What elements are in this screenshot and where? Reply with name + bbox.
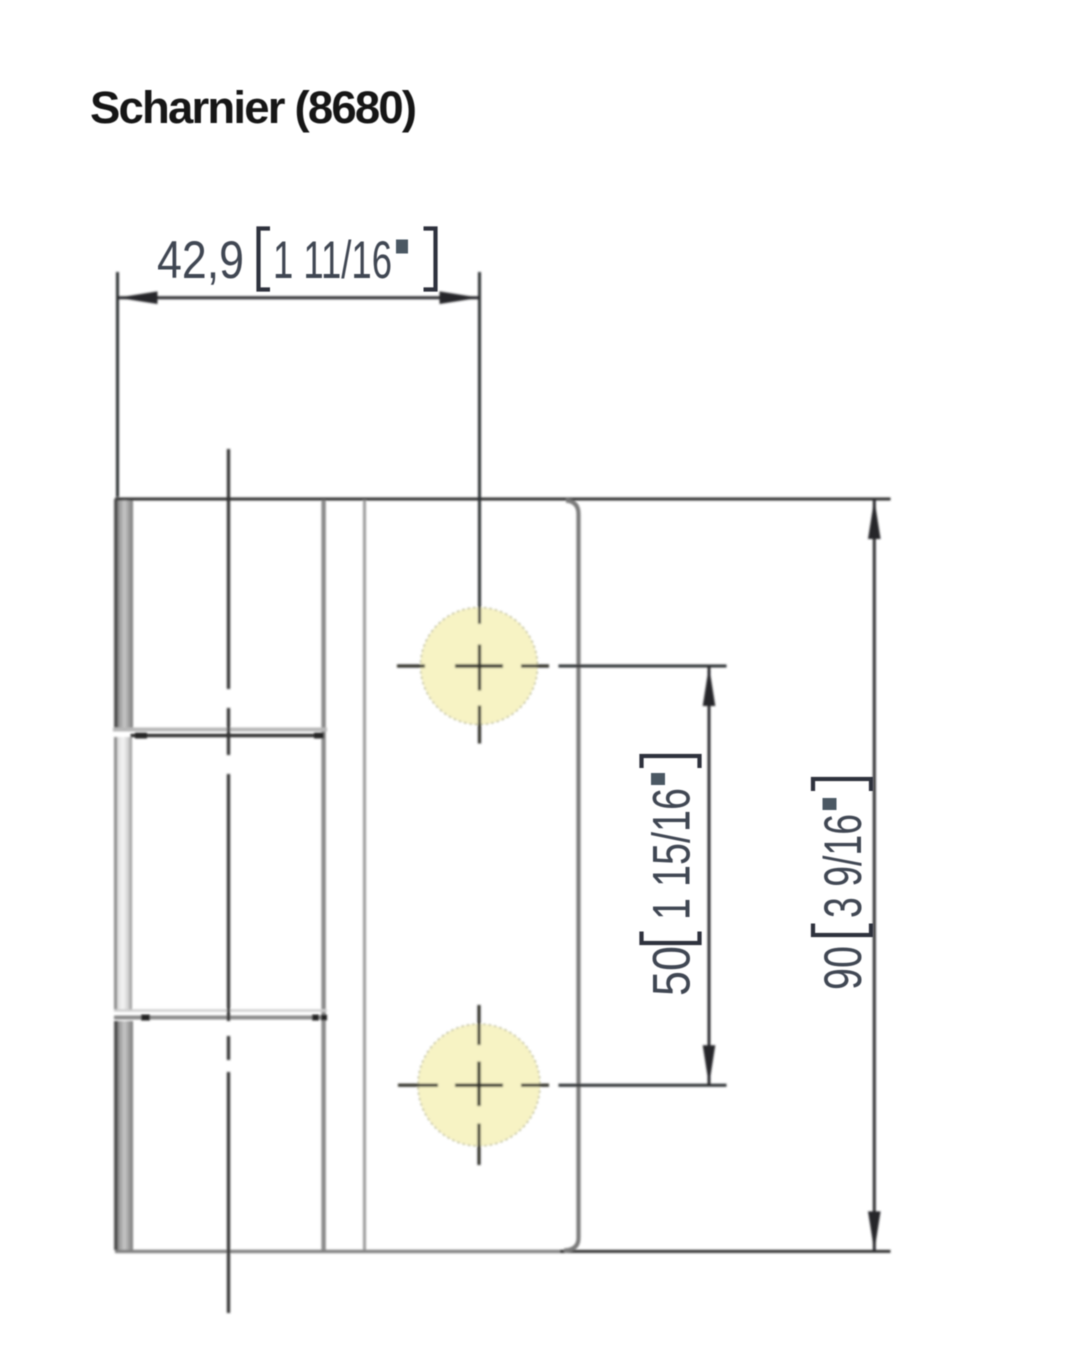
90dim arrow up <box>868 499 881 539</box>
svg-text:50: 50 <box>643 946 702 996</box>
plate left edge line (middle segment) <box>115 737 118 1010</box>
50dim arrow up <box>703 666 716 706</box>
plate left edge dark line (top segment) <box>115 499 118 729</box>
plate left edge dark line (bottom segment) <box>115 1021 118 1250</box>
hinge pin centerline segments <box>227 449 230 689</box>
knuckle shaded band bottom segment <box>114 1021 133 1250</box>
dim text 90 [3 9/16"] rotated <box>813 779 873 990</box>
hole H2 extension to 50dim <box>559 1084 727 1087</box>
dim text 50 [1 15/16"] rotated <box>642 756 702 996</box>
knuckle joint 2 gray line <box>114 1016 327 1020</box>
knuckle band middle segment <box>114 737 132 1010</box>
90 dimension line <box>873 499 876 1251</box>
90dim bottom extension line (dark part) <box>560 1250 891 1253</box>
plate top edge + 90dim top extension line <box>115 498 891 501</box>
top dim extension line left <box>116 272 119 497</box>
plate right edge with rounded corners <box>564 501 579 1251</box>
90dim arrow down <box>868 1211 881 1251</box>
svg-text:Scharnier (8680): Scharnier (8680) <box>90 82 417 133</box>
svg-text:90: 90 <box>814 946 873 990</box>
svg-text:1 11/16: 1 11/16 <box>273 231 392 290</box>
hole H1 (top) yellow fill <box>421 608 538 725</box>
leaf bend line vertical <box>363 500 366 1250</box>
plate bottom edge (gray part) <box>115 1250 565 1253</box>
50 dimension line <box>708 666 711 1085</box>
50dim arrow down <box>703 1045 716 1085</box>
svg-text:1 15/16: 1 15/16 <box>643 788 702 920</box>
knuckle joint 1 dark line <box>131 734 325 737</box>
joint 1 end ticks <box>135 733 147 739</box>
knuckle shaded band top segment <box>114 499 133 728</box>
hole H2 crosshair horizontal <box>398 1084 438 1087</box>
dim text 42,9 [1 11/16"] <box>157 229 436 291</box>
top dim arrow left <box>118 291 158 304</box>
svg-text:3 9/16: 3 9/16 <box>814 814 873 918</box>
knuckle joint 1 light line <box>113 728 327 732</box>
knuckle right edge vertical <box>321 500 325 1250</box>
hole H1 extension to 50dim <box>559 665 727 668</box>
knuckle joint 2 light line <box>114 1009 327 1011</box>
top dim extension line right / hole H1 centerline <box>478 272 481 624</box>
hole H2 (bottom) yellow fill <box>418 1024 540 1146</box>
joint 2 end ticks <box>141 1015 150 1021</box>
top dimension line <box>118 296 480 299</box>
hole H1 crosshair horizontal <box>397 664 425 667</box>
svg-text:42,9: 42,9 <box>157 231 244 290</box>
top dim arrow right <box>440 291 480 304</box>
hole H2 crosshair vertical <box>477 1005 480 1045</box>
